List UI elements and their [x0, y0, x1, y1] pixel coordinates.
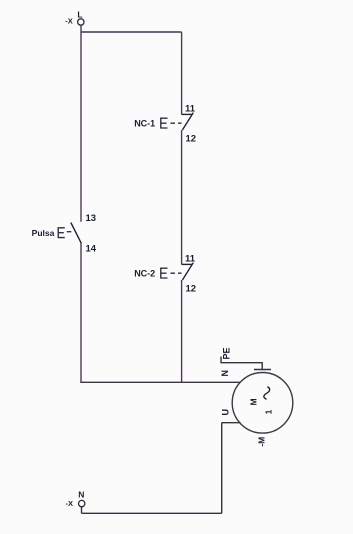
wire: PE stub [221, 357, 271, 370]
motor ~ squiggle [264, 387, 270, 400]
svg-text:-X: -X [65, 17, 73, 26]
svg-text:PE: PE [222, 347, 232, 359]
NC-1 actuator E [161, 118, 182, 128]
svg-text:12: 12 [186, 134, 197, 145]
NC-2 actuator E [161, 268, 182, 278]
wire: right branch down to NC-1 [181, 32, 183, 115]
svg-text:L: L [77, 9, 82, 19]
wire: U down [221, 423, 223, 514]
terminal -X L (top) [65, 9, 84, 25]
svg-text:14: 14 [86, 244, 97, 255]
contact NC-1 (NC, pins 11-12) [182, 113, 194, 130]
wire: top terminal down to Pulsa (x=81) [80, 25, 82, 222]
svg-text:N: N [220, 370, 230, 377]
svg-text:1: 1 [263, 409, 273, 414]
svg-text:N: N [78, 489, 84, 499]
svg-text:12: 12 [186, 284, 197, 295]
svg-text:11: 11 [185, 253, 196, 264]
wire: NC-2 down to bottom rail [181, 280, 183, 382]
svg-text:NC-1: NC-1 [134, 118, 155, 128]
wire: bottom rail to motor N terminal [80, 381, 240, 383]
contact NC-2 (NC, pins 11-12) [182, 263, 194, 280]
svg-text:U: U [221, 409, 231, 416]
svg-text:-M: -M [257, 437, 267, 447]
wire: up to bottom terminal [81, 507, 83, 514]
svg-text:-X: -X [66, 499, 74, 508]
contact Pulsa (NO, pins 13-14) [71, 223, 82, 244]
motor M1 circle [232, 373, 293, 434]
wire: NC-1 to NC-2 [181, 130, 183, 265]
Pulsa actuator E [58, 228, 72, 238]
svg-text:11: 11 [185, 103, 196, 114]
wire: top horizontal L branch [81, 31, 182, 33]
wire: Pulsa down to bottom rail [80, 243, 82, 382]
svg-text:13: 13 [86, 213, 97, 224]
wire: bottom horizontal to terminal N [82, 512, 222, 514]
wire: motor U stub [222, 422, 241, 424]
terminal -X N (bottom) [66, 489, 85, 508]
svg-text:Pulsa: Pulsa [32, 228, 55, 238]
svg-text:M: M [248, 398, 258, 405]
svg-text:NC-2: NC-2 [134, 268, 155, 278]
